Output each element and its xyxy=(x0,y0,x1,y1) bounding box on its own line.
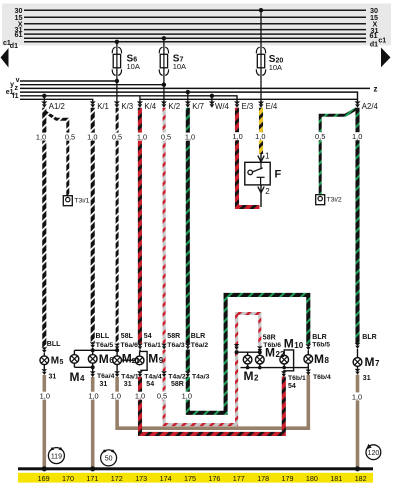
svg-text:1,0: 1,0 xyxy=(137,133,147,142)
connector T6b/4 xyxy=(306,370,312,376)
bus line d1 xyxy=(24,41,366,43)
svg-text:T4a/4: T4a/4 xyxy=(144,373,162,380)
wire ground brown M7 xyxy=(356,375,360,469)
ground point 120 xyxy=(366,444,381,460)
svg-text:M: M xyxy=(365,355,375,369)
wire BLR loop black/green xyxy=(188,295,308,413)
junction dot S7 bottom on y xyxy=(162,83,166,87)
label T4a/4 xyxy=(144,373,162,380)
bus line 30 xyxy=(24,9,366,11)
connector K/2 xyxy=(161,101,167,107)
svg-text:58R: 58R xyxy=(167,333,180,340)
junction dot bracket2 right xyxy=(258,350,262,354)
svg-text:31: 31 xyxy=(49,373,57,380)
M22 bottom tick xyxy=(259,364,261,368)
lamp M4 xyxy=(70,355,79,364)
svg-text:4: 4 xyxy=(80,374,85,383)
label T6b/1 xyxy=(288,375,306,382)
junction dot bracket col3 xyxy=(91,348,95,352)
fuse S20 xyxy=(256,47,265,75)
lamp M5 xyxy=(40,356,49,365)
bus label c1 right xyxy=(378,38,386,45)
connector T6b/5 xyxy=(306,344,312,350)
connector K/3 xyxy=(114,101,120,107)
M4 feed tick xyxy=(73,350,75,355)
bus2 line e1 with corner to A2/4 xyxy=(20,92,358,101)
wire 58R loop gray/red xyxy=(164,314,260,425)
drop wire to A1/2 xyxy=(43,96,45,102)
svg-text:169: 169 xyxy=(38,474,50,483)
label E/3 xyxy=(242,102,254,111)
connector T6a/5 xyxy=(90,342,96,348)
bus2 line f1 with corner to E/3 xyxy=(20,96,237,102)
M7 bottom line xyxy=(357,366,359,369)
M5 feed line xyxy=(43,353,45,356)
svg-text:T6a/2: T6a/2 xyxy=(191,342,209,349)
svg-text:1,0: 1,0 xyxy=(182,392,192,401)
gauge labels row1 xyxy=(34,132,364,140)
label M7 xyxy=(365,355,381,369)
drop wire to K/7 xyxy=(187,92,189,101)
M6 feed line xyxy=(92,348,94,355)
bus line X xyxy=(24,23,366,25)
connector T3i/1 xyxy=(63,196,72,206)
svg-text:T4a/3: T4a/3 xyxy=(192,373,210,380)
svg-text:22: 22 xyxy=(276,350,285,359)
svg-text:1,0: 1,0 xyxy=(36,133,46,142)
label M10 xyxy=(284,336,304,350)
connector below M7 xyxy=(355,369,361,375)
ground dot M5 xyxy=(42,466,47,471)
wire A1/2 black/white xyxy=(42,108,46,347)
label E/4 xyxy=(266,102,278,111)
svg-text:50: 50 xyxy=(105,456,113,463)
wire ground brown M21 to M8 xyxy=(117,375,308,428)
label K/3 xyxy=(121,102,133,111)
label 31 col3 xyxy=(100,381,108,388)
junction dot S6 top on d1 xyxy=(115,40,119,44)
bus label c1 left xyxy=(3,40,11,47)
svg-text:z: z xyxy=(15,85,19,92)
fuse S20 wire to E/4 xyxy=(260,10,262,101)
svg-text:K/4: K/4 xyxy=(144,102,156,111)
wire A2/4 branch to T3i/2 green/black 0,5 xyxy=(320,109,356,195)
label S7 10A xyxy=(173,53,186,71)
label T4a/3 xyxy=(192,373,210,380)
connector T4a/4 xyxy=(137,371,143,377)
svg-text:K/7: K/7 xyxy=(192,102,204,111)
svg-text:61: 61 xyxy=(370,31,378,40)
svg-text:8: 8 xyxy=(325,356,330,365)
svg-text:1,0: 1,0 xyxy=(88,392,98,401)
label T6b/5 xyxy=(312,341,330,348)
svg-text:31: 31 xyxy=(100,381,108,388)
gauge labels row2 xyxy=(38,392,364,401)
connector T4a/1 xyxy=(114,371,120,377)
lamp M21 xyxy=(113,356,122,365)
label T6a/2 xyxy=(191,342,209,349)
svg-text:120: 120 xyxy=(368,450,380,457)
lamp M8 xyxy=(304,355,313,364)
svg-text:M: M xyxy=(99,352,109,366)
bus labels right xyxy=(370,6,379,40)
right bracket bottom xyxy=(241,367,309,369)
connector E/4 xyxy=(258,102,264,108)
svg-text:T3i/1: T3i/1 xyxy=(74,198,89,205)
lamp M6 xyxy=(88,355,97,364)
svg-text:175: 175 xyxy=(184,474,196,483)
svg-text:170: 170 xyxy=(62,474,74,483)
svg-text:1,0: 1,0 xyxy=(352,392,362,401)
svg-text:0,5: 0,5 xyxy=(112,133,122,142)
label T6a/6 xyxy=(121,342,139,349)
bus2 line 6 segment B xyxy=(140,98,358,100)
svg-text:0,5: 0,5 xyxy=(65,133,75,142)
label M2 xyxy=(244,369,260,383)
wire K/4 red/black xyxy=(138,108,142,344)
svg-text:10A: 10A xyxy=(269,63,282,72)
svg-text:y: y xyxy=(10,82,14,89)
svg-text:31: 31 xyxy=(124,381,132,388)
svg-text:K/1: K/1 xyxy=(97,102,109,111)
label W/4 xyxy=(215,102,230,111)
wire col6 through lamp unit gray/red xyxy=(163,350,166,372)
connector K/4 xyxy=(137,101,143,107)
svg-text:BLL: BLL xyxy=(96,333,110,340)
svg-text:174: 174 xyxy=(160,474,172,483)
label 58R col6 xyxy=(167,333,180,340)
label 58L xyxy=(121,333,134,340)
wire ground brown M5 xyxy=(42,375,46,468)
continuation arrow right xyxy=(381,48,391,68)
M2 feed tick xyxy=(247,352,249,355)
svg-text:1,0: 1,0 xyxy=(352,132,362,141)
svg-text:T6a/6: T6a/6 xyxy=(121,342,139,349)
label K/1 xyxy=(97,102,109,111)
label M6 xyxy=(99,352,115,366)
bus2 labels xyxy=(6,77,20,100)
junction dot A1/2 on f1 xyxy=(42,94,46,98)
lamp M7 xyxy=(353,358,362,367)
label M9 xyxy=(148,351,164,365)
svg-text:d1: d1 xyxy=(370,42,378,49)
lamp M9 xyxy=(135,356,144,365)
M9 bypass path xyxy=(140,350,147,372)
track number strip xyxy=(18,473,373,483)
svg-text:172: 172 xyxy=(111,474,123,483)
label T6a/4 xyxy=(97,373,115,380)
svg-text:0,5: 0,5 xyxy=(315,132,325,141)
svg-text:BLR: BLR xyxy=(362,334,376,341)
svg-text:58R: 58R xyxy=(263,334,276,341)
svg-text:181: 181 xyxy=(330,474,342,483)
F pin1 lead with arrow xyxy=(258,154,264,162)
svg-text:M: M xyxy=(314,352,324,366)
svg-text:T6a/1: T6a/1 xyxy=(144,342,162,349)
svg-text:E/3: E/3 xyxy=(242,102,254,111)
left lamp bracket bottom xyxy=(74,366,92,368)
svg-text:T6b/5: T6b/5 xyxy=(312,341,330,348)
svg-text:1,0: 1,0 xyxy=(255,132,265,141)
label M22 xyxy=(265,345,285,359)
connector T3i/2 xyxy=(316,195,325,205)
label BLR M7 xyxy=(362,334,376,341)
wire K/1 black/white xyxy=(91,108,95,342)
svg-text:BLL: BLL xyxy=(47,341,61,348)
connector below BLL col1 xyxy=(42,347,48,353)
drop wire to K/3 xyxy=(116,81,118,101)
connector K/1 xyxy=(90,101,96,107)
label F xyxy=(275,169,282,181)
label T4a/1 xyxy=(121,373,139,380)
svg-text:v: v xyxy=(16,77,20,84)
label 31 M7 xyxy=(363,375,371,382)
svg-text:58R: 58R xyxy=(171,381,184,388)
svg-text:179: 179 xyxy=(282,474,294,483)
label BLL col3 xyxy=(96,333,110,340)
wire K/2 gray/red 0,5 xyxy=(163,108,166,344)
svg-text:M: M xyxy=(70,370,80,384)
bus2 line z xyxy=(20,87,370,89)
label pin 2 xyxy=(265,187,270,196)
top bus band xyxy=(2,4,391,46)
lamp M22 feed xyxy=(259,352,261,355)
ground point 119 xyxy=(48,447,64,464)
label A1/2 xyxy=(49,102,65,111)
M21 bottom line xyxy=(116,364,118,371)
svg-text:T4a/2: T4a/2 xyxy=(168,373,186,380)
wire E/4 yellow/black xyxy=(259,108,263,154)
label M8 xyxy=(314,352,330,366)
bus2 line v xyxy=(20,80,117,82)
label 58R right xyxy=(263,334,276,341)
label T6a/5 xyxy=(96,342,114,349)
svg-text:F: F xyxy=(275,169,282,181)
connector T6a/4 xyxy=(90,371,96,377)
M9 feed tick xyxy=(139,351,141,356)
M2 bottom tick xyxy=(247,364,249,368)
svg-text:1,0: 1,0 xyxy=(111,392,121,401)
wire ground brown M6 xyxy=(91,377,95,468)
M10 bottom tick xyxy=(283,364,285,368)
svg-text:T6a/4: T6a/4 xyxy=(97,373,115,380)
svg-text:c1: c1 xyxy=(378,38,386,45)
bus line 15 xyxy=(24,16,366,18)
fuse S7 xyxy=(159,47,168,75)
label pin 1 xyxy=(265,152,270,161)
svg-text:1,0: 1,0 xyxy=(87,133,97,142)
right bracket top xyxy=(237,351,260,353)
junction dot bracket2 left xyxy=(235,350,239,354)
svg-text:2: 2 xyxy=(254,373,259,382)
label M21 xyxy=(122,351,140,365)
M4 bottom tick xyxy=(73,363,75,368)
M10 bypass path xyxy=(284,350,294,371)
fuse S6 xyxy=(112,47,121,75)
svg-text:T6b/1: T6b/1 xyxy=(288,375,306,382)
svg-text:10: 10 xyxy=(294,341,303,350)
label T3i/1 xyxy=(74,198,89,205)
label BLL col1 xyxy=(47,341,61,348)
svg-text:K/3: K/3 xyxy=(121,102,133,111)
svg-text:T3i/2: T3i/2 xyxy=(327,197,342,204)
connector T6a/6 xyxy=(114,344,120,350)
svg-text:M: M xyxy=(51,356,59,367)
svg-text:180: 180 xyxy=(306,474,318,483)
svg-text:1: 1 xyxy=(265,152,270,161)
svg-text:54: 54 xyxy=(144,333,152,340)
svg-text:7: 7 xyxy=(375,359,380,368)
connector on 58R loop left leg xyxy=(234,344,240,350)
lamp M10 xyxy=(280,355,289,364)
M8 bottom line xyxy=(307,363,309,369)
bus line c1 xyxy=(24,37,366,39)
svg-text:M: M xyxy=(148,351,158,365)
label K/4 xyxy=(144,102,156,111)
wire col7 through lamp unit black/green xyxy=(186,350,190,372)
svg-text:d1: d1 xyxy=(10,43,18,50)
connector T4a/2 xyxy=(161,371,167,377)
label BLR M8 xyxy=(312,334,326,341)
connector A1/2 xyxy=(41,101,47,107)
bus2 line 6 segment A to K/1 xyxy=(20,99,93,101)
label K/2 xyxy=(168,102,180,111)
M5 bottom line xyxy=(43,364,45,369)
junction dot S20 top on 30 xyxy=(259,8,263,12)
M7 feed line xyxy=(357,349,359,358)
label T6b/6 xyxy=(263,342,281,349)
bus label d1 right xyxy=(370,42,378,49)
label S6 10A xyxy=(127,53,140,71)
svg-text:z: z xyxy=(374,84,378,93)
M6 bottom line xyxy=(92,363,94,372)
wire K/3 black/white 0,5 xyxy=(116,108,119,344)
svg-text:10A: 10A xyxy=(173,62,186,71)
svg-text:W/4: W/4 xyxy=(215,102,230,111)
connector T6b/1 xyxy=(281,371,287,377)
bus2 label z right xyxy=(374,84,378,93)
fuse S6 wire xyxy=(116,42,118,81)
svg-text:176: 176 xyxy=(208,474,220,483)
svg-text:BLR: BLR xyxy=(312,334,326,341)
connector below M5 xyxy=(42,369,48,375)
svg-text:171: 171 xyxy=(86,474,98,483)
svg-text:M: M xyxy=(122,351,132,365)
svg-text:0,5: 0,5 xyxy=(157,392,167,401)
wire branch to T3i/1 black/white 0,5 xyxy=(45,112,68,196)
lamp M22 xyxy=(255,355,264,364)
svg-text:21: 21 xyxy=(132,356,140,365)
junction dot M22 bottom xyxy=(258,366,262,370)
connector T6a/1 xyxy=(137,344,143,350)
svg-text:T6a/5: T6a/5 xyxy=(96,342,114,349)
svg-text:BLR: BLR xyxy=(191,333,205,340)
wire A2/4 black/green xyxy=(355,108,359,343)
label 54 below T4a/4 xyxy=(146,381,154,388)
connector K/7 xyxy=(185,101,191,107)
label M5 xyxy=(51,356,64,367)
svg-text:5: 5 xyxy=(60,359,64,366)
svg-text:1,0: 1,0 xyxy=(135,392,145,401)
svg-text:2: 2 xyxy=(265,187,270,196)
label T3i/2 xyxy=(327,197,342,204)
svg-text:f1: f1 xyxy=(12,93,18,100)
bus line 31 xyxy=(24,29,366,31)
connector T6a/2 xyxy=(185,344,191,350)
svg-text:54: 54 xyxy=(288,383,296,390)
svg-text:M: M xyxy=(265,345,275,359)
junction dot S6 bottom on v xyxy=(115,79,119,83)
svg-text:A2/4: A2/4 xyxy=(362,102,379,111)
connector A2/4 xyxy=(355,101,361,107)
bus2 line y xyxy=(20,84,164,86)
drop wire to K/4 xyxy=(139,96,141,102)
svg-text:177: 177 xyxy=(233,474,245,483)
junction dot M10 bottom xyxy=(282,366,286,370)
wire 54 loop red/black xyxy=(140,377,284,434)
svg-text:54: 54 xyxy=(146,381,154,388)
svg-text:E/4: E/4 xyxy=(266,102,278,111)
svg-text:T4a/1: T4a/1 xyxy=(121,373,139,380)
junction dot K/7 on e1 xyxy=(186,90,190,94)
label 54 col5 xyxy=(144,333,152,340)
wire K/7 black/green xyxy=(186,108,190,344)
svg-text:M: M xyxy=(284,336,294,350)
continuation arrow left xyxy=(1,48,9,68)
svg-text:10A: 10A xyxy=(127,62,140,71)
svg-text:1,0: 1,0 xyxy=(232,132,242,141)
label 58R below T4a/2 xyxy=(171,381,184,388)
label A2/4 xyxy=(362,102,379,111)
junction dot S7 top on c1 xyxy=(162,36,166,40)
svg-text:T6b/4: T6b/4 xyxy=(313,374,331,381)
connector T4a/3 xyxy=(185,371,191,377)
label T4a/2 xyxy=(168,373,186,380)
svg-text:61: 61 xyxy=(15,30,23,39)
label T6b/4 xyxy=(313,374,331,381)
drop wire to W/4 xyxy=(211,96,213,102)
bus label d1 left xyxy=(10,43,18,50)
M21 feed line xyxy=(116,350,118,357)
svg-text:K/2: K/2 xyxy=(168,102,180,111)
label S20 10A xyxy=(269,54,284,72)
svg-text:58L: 58L xyxy=(121,333,134,340)
svg-text:T6a/3: T6a/3 xyxy=(167,342,185,349)
label 31 col1 xyxy=(49,373,57,380)
connector above M7 xyxy=(355,343,361,349)
lamp chain M21 to M9 xyxy=(121,359,135,361)
junction dot bracket col4 xyxy=(115,348,119,352)
junction dot W/4 on f1 xyxy=(210,94,214,98)
bus labels left xyxy=(15,6,23,39)
bus line 61 xyxy=(24,33,366,35)
drop wire to K/2 xyxy=(163,85,165,102)
label 54 right xyxy=(288,383,296,390)
label M4 xyxy=(70,370,86,384)
fuse S7 wire xyxy=(163,38,165,84)
svg-text:173: 173 xyxy=(135,474,147,483)
connector T6b/6 xyxy=(257,346,263,352)
label 31 col4 xyxy=(124,381,132,388)
M8 feed line xyxy=(307,350,309,355)
svg-text:1,0: 1,0 xyxy=(40,392,50,401)
F pin2 lead with arrow xyxy=(258,185,264,207)
switch F box xyxy=(245,162,270,185)
lamp M2 xyxy=(243,355,252,364)
track numbers xyxy=(38,474,367,483)
connector E/3 xyxy=(234,101,240,107)
svg-text:0,5: 0,5 xyxy=(161,133,171,142)
